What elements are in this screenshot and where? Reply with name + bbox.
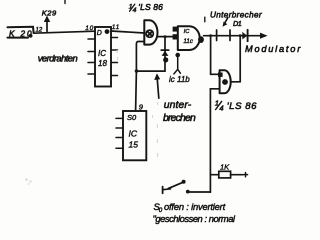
switch lever <box>168 182 183 189</box>
svg-text:15: 15 <box>129 140 139 150</box>
XOR1 lower input wire <box>136 42 144 72</box>
svg-text:Modulator: Modulator <box>245 44 302 54</box>
Unterbrecher arrow <box>225 18 228 23</box>
svg-text:D: D <box>97 30 102 37</box>
svg-text:4: 4 <box>133 7 137 14</box>
svg-text:S0: S0 <box>127 113 137 122</box>
wire from K20 to IC18 pin 10 <box>34 31 96 33</box>
arrowhead Modulator <box>260 33 268 39</box>
diode on feedback line <box>164 37 166 71</box>
connector tag K20 <box>8 27 34 33</box>
resistor R 1K <box>219 171 231 178</box>
open input line with crow foot <box>174 57 181 74</box>
svg-text:IC: IC <box>129 128 138 138</box>
NAND input pin blobs <box>173 27 178 32</box>
XOR symbol inside <box>146 30 153 37</box>
svg-text:K 20: K 20 <box>9 29 33 38</box>
stray tick above NAND <box>204 17 206 22</box>
svg-text:ic 11b: ic 11b <box>169 75 190 84</box>
feedback bottom wire <box>136 70 165 72</box>
svg-text:4: 4 <box>219 103 223 112</box>
svg-text:unter-: unter- <box>164 100 192 111</box>
plus terminal <box>243 173 247 177</box>
XOR gate U1 (1/4 LS86) <box>144 20 157 44</box>
resistor branch wire <box>210 174 218 176</box>
switch S0 bottom wire <box>189 191 210 193</box>
svg-text:11: 11 <box>112 24 120 31</box>
NAND gate IC11c <box>178 26 200 50</box>
wire to + <box>231 174 243 176</box>
svg-text:verdrahten: verdrahten <box>38 52 78 63</box>
svg-text:'LS 86: 'LS 86 <box>138 2 163 12</box>
IC U: IC18 box <box>95 27 111 87</box>
XOR gate U2 (1/4 LS86) <box>220 70 231 93</box>
faint scan smudges <box>25 50 158 185</box>
svg-text:IC: IC <box>184 29 191 35</box>
XOR2 inner dot <box>222 79 228 85</box>
switch left terminal <box>163 188 171 191</box>
svg-text:'LS 86: 'LS 86 <box>227 101 257 112</box>
svg-text:brechen: brechen <box>163 113 196 124</box>
node K29 arrow <box>46 21 48 32</box>
XOR2 output wire <box>231 81 240 83</box>
IC box IC15 <box>123 111 146 160</box>
wire IC18 pin11 to XOR1 input <box>111 31 144 33</box>
arrow to feedback (ic 11b) <box>157 80 159 99</box>
diode D1 <box>242 32 247 40</box>
svg-text:D1: D1 <box>233 19 242 28</box>
label Q dot <box>105 29 110 34</box>
switch right contact dot <box>186 190 190 194</box>
XOR1 output wire <box>158 36 178 38</box>
stray mark top <box>64 0 66 4</box>
IC18 right pin stubs <box>111 38 118 76</box>
wire to IC15 pin 9 <box>135 71 138 111</box>
svg-text:10: 10 <box>85 25 94 32</box>
junction to XOR2 top input <box>209 34 212 37</box>
junction blob <box>163 57 168 62</box>
svg-text:"geschlossen : normal: "geschlossen : normal <box>153 213 236 224</box>
output wire to Modulator <box>204 35 263 37</box>
NAND output blob <box>198 36 204 43</box>
svg-text:18: 18 <box>98 59 107 68</box>
node junction on output <box>164 35 167 38</box>
junction tick <box>135 69 139 73</box>
XOR2 lower input wire down <box>210 89 219 192</box>
switch contact ticks (Unterbrecher) <box>217 30 230 41</box>
XOR2 top input pin blob <box>218 73 223 77</box>
svg-text:offen : invertiert: offen : invertiert <box>164 201 226 212</box>
svg-text:K29: K29 <box>42 9 57 18</box>
junction XOR2 output up <box>239 34 242 37</box>
IC18 left pin stubs <box>88 39 95 74</box>
svg-text:IC: IC <box>98 49 106 58</box>
NAND bottom input pin <box>175 53 180 58</box>
svg-text:11c: 11c <box>183 38 193 45</box>
svg-text:1K: 1K <box>220 163 230 172</box>
IC15 left pin stubs <box>116 118 123 148</box>
